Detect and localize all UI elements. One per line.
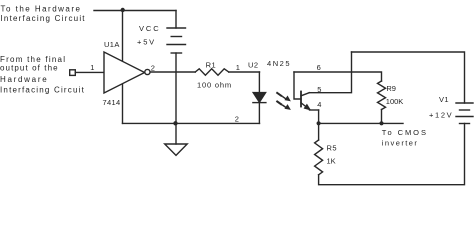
resistor R9 bbox=[378, 81, 386, 110]
wire U1A output to R1 bbox=[150, 71, 195, 73]
svg-text:6: 6 bbox=[317, 63, 321, 72]
battery VCC +5V bbox=[167, 28, 186, 53]
svg-text:4: 4 bbox=[317, 100, 321, 109]
op-amp U1A 7414 inverter triangle bbox=[104, 52, 145, 93]
wire input from terminal to U1A bbox=[75, 71, 104, 73]
svg-text:To the Hardware: To the Hardware bbox=[1, 4, 82, 13]
svg-text:100K: 100K bbox=[386, 97, 404, 106]
svg-text:5: 5 bbox=[317, 85, 321, 94]
svg-text:1: 1 bbox=[90, 63, 94, 72]
inverter output bubble bbox=[145, 69, 150, 74]
svg-text:R5: R5 bbox=[327, 143, 338, 152]
svg-text:To CMOS: To CMOS bbox=[382, 128, 428, 137]
wire emitter node to CMOS stub bbox=[319, 122, 403, 124]
wire vertical VCC feed through U1A bbox=[122, 11, 124, 124]
wire R5 bottom to battery V1 negative bbox=[319, 124, 465, 185]
wire U2 LED anode lead bbox=[258, 72, 260, 93]
wire top rail from hardware interfacing circuit bbox=[94, 10, 176, 12]
svg-text:Hardware: Hardware bbox=[0, 75, 48, 84]
resistor R5 bbox=[315, 140, 323, 175]
photon arrow 1 bbox=[277, 93, 290, 101]
wire battery top lead bbox=[175, 11, 177, 29]
svg-text:inverter: inverter bbox=[382, 139, 419, 148]
svg-text:output of the: output of the bbox=[0, 63, 59, 72]
svg-text:7414: 7414 bbox=[103, 98, 121, 107]
svg-text:VCC: VCC bbox=[139, 24, 161, 33]
battery V1 +12V bbox=[456, 103, 473, 124]
diode LED inside U2 bbox=[253, 93, 265, 103]
svg-text:+5V: +5V bbox=[137, 37, 156, 46]
svg-text:1: 1 bbox=[236, 63, 240, 72]
svg-text:100 ohm: 100 ohm bbox=[197, 80, 232, 89]
wire bottom ground rail bbox=[123, 122, 260, 124]
svg-text:Interfacing Circuit: Interfacing Circuit bbox=[1, 14, 86, 23]
svg-text:2: 2 bbox=[235, 114, 239, 123]
wire pin 6 to R9 bbox=[294, 72, 382, 81]
svg-text:U2: U2 bbox=[248, 61, 259, 70]
wire U2 LED cathode to pin 2 bbox=[258, 103, 260, 124]
photon arrow 2 bbox=[277, 102, 290, 110]
resistor R1 bbox=[195, 69, 229, 75]
junction R9 bottom bbox=[379, 121, 383, 125]
junction ground rail bbox=[173, 121, 177, 125]
svg-text:+12V: +12V bbox=[429, 110, 453, 119]
transistor emitter lead with arrow bbox=[301, 103, 319, 110]
wire ground stub bbox=[175, 123, 177, 144]
input terminal box bbox=[70, 70, 76, 76]
svg-text:Interfacing Circuit: Interfacing Circuit bbox=[0, 86, 85, 95]
transistor Q1 base bar bbox=[300, 92, 302, 107]
diode cathode bar bbox=[253, 102, 266, 104]
svg-text:U1A: U1A bbox=[104, 40, 120, 49]
wire battery bottom lead to ground rail bbox=[175, 53, 177, 123]
junction top rail bbox=[121, 8, 125, 12]
ground bbox=[165, 144, 188, 155]
wire U2 base pin 6 lead bbox=[294, 72, 301, 99]
junction emitter node bbox=[317, 121, 321, 125]
svg-text:R9: R9 bbox=[386, 84, 396, 93]
svg-text:R1: R1 bbox=[206, 60, 217, 69]
wire pin 5 collector to right loop bbox=[309, 52, 351, 93]
wire R1 to U2 pin 1 bbox=[229, 71, 260, 73]
wire R9 bottom lead bbox=[381, 110, 383, 124]
svg-text:V1: V1 bbox=[439, 95, 449, 104]
svg-text:2: 2 bbox=[151, 64, 155, 73]
wire top loop to battery V1 bbox=[352, 52, 465, 103]
svg-text:4N25: 4N25 bbox=[267, 59, 291, 68]
transistor collector lead bbox=[301, 93, 309, 96]
svg-text:1K: 1K bbox=[327, 157, 336, 166]
wire emitter pin 4 down bbox=[318, 110, 320, 140]
